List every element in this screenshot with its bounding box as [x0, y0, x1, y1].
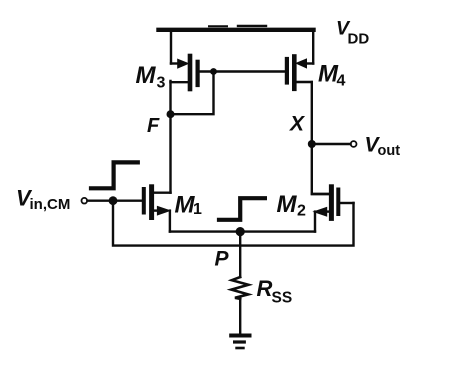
svg-text:in,CM: in,CM: [30, 196, 71, 213]
node: M3 gate junction: [210, 68, 217, 75]
svg-text:4: 4: [337, 73, 346, 90]
label M2: [277, 191, 307, 220]
wire: P down to resistor: [239, 232, 241, 277]
svg-text:M: M: [277, 191, 298, 218]
label Vout: [365, 134, 401, 160]
label Vin,CM: [16, 186, 70, 214]
transistor M4 (PMOS): [287, 30, 313, 89]
node P: [236, 227, 245, 236]
svg-text:M: M: [136, 62, 157, 89]
node: input junction on M1 gate wire: [109, 196, 118, 205]
svg-text:3: 3: [157, 75, 166, 92]
label X: [289, 113, 306, 136]
label M3: [136, 62, 166, 92]
VDD supply rail: [159, 26, 314, 30]
wire: resistor to ground: [239, 299, 241, 334]
ground symbol: [231, 336, 249, 349]
wire: tail (M1 source to M2 source through P): [170, 230, 315, 232]
wire: diode connection (gate down to drain/F): [171, 72, 214, 115]
wire: gate bus M3 to M4: [214, 70, 286, 72]
label F: [147, 115, 160, 137]
svg-text:2: 2: [297, 203, 306, 220]
label VDD: [336, 18, 369, 48]
svg-text:1: 1: [193, 201, 202, 218]
svg-text:P: P: [215, 248, 230, 271]
resistor RSS (zigzag): [231, 277, 248, 299]
label M1: [175, 192, 203, 219]
transistor M3 (PMOS, diode-connected): [171, 30, 214, 89]
wire: common-mode bus (input node to M2 gate): [113, 201, 354, 246]
node X: [308, 140, 316, 148]
svg-text:R: R: [257, 276, 273, 301]
step waveform symbol at M2 input: [219, 198, 265, 220]
transistor M1 (NMOS): [88, 187, 171, 232]
step waveform symbol at M1 input: [91, 162, 138, 188]
svg-text:out: out: [378, 143, 401, 159]
terminal Vout (open circle): [351, 141, 357, 147]
svg-text:X: X: [289, 113, 306, 136]
wire: left vertical (M3 drain to node F to M1 drain): [169, 81, 171, 193]
wire: X to Vout terminal: [312, 143, 351, 145]
svg-text:F: F: [147, 115, 160, 137]
transistor M2 (NMOS, mirrored): [312, 187, 354, 232]
label P: [215, 248, 230, 271]
wire: M4 drain down through X to M2 drain: [312, 82, 329, 194]
label M4: [318, 61, 346, 90]
label RSS: [257, 276, 293, 307]
node F: [167, 110, 175, 118]
svg-text:DD: DD: [348, 31, 370, 48]
terminal Vin,CM (open circle): [82, 198, 88, 204]
svg-text:SS: SS: [272, 290, 293, 307]
